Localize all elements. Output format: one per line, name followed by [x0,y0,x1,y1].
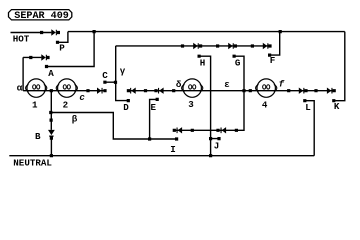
svg-text:A: A [48,68,54,79]
svg-text:3: 3 [188,99,194,110]
svg-text:C: C [102,70,108,81]
svg-text:I: I [170,144,176,155]
svg-text:2: 2 [63,100,69,111]
svg-text:F: F [270,55,276,66]
svg-text:SEPAR 409: SEPAR 409 [14,11,69,22]
svg-text:α: α [17,82,23,93]
svg-text:HOT: HOT [13,34,30,45]
svg-text:4: 4 [262,99,268,110]
svg-text:E: E [151,102,157,113]
svg-text:δ: δ [176,79,182,90]
svg-text:β: β [72,113,78,124]
svg-text:D: D [123,102,129,113]
svg-text:H: H [200,57,206,68]
svg-text:B: B [35,131,41,142]
svg-text:P: P [59,43,65,54]
svg-text:L: L [305,102,311,113]
svg-text:NEUTRAL: NEUTRAL [13,157,52,168]
svg-text:ε: ε [224,79,230,90]
svg-text:1: 1 [32,100,38,111]
svg-text:K: K [334,101,340,112]
svg-text:c: c [79,92,85,103]
svg-text:G: G [235,57,241,68]
svg-text:γ: γ [120,66,126,77]
svg-text:J: J [214,140,220,151]
svg-text:f: f [279,79,285,90]
